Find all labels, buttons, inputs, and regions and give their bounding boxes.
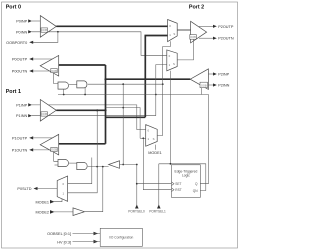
node x123.2 y107.6	[122, 107, 124, 109]
svg-text:P0INN: P0INN	[16, 30, 27, 34]
svg-text:Port 0: Port 0	[6, 4, 21, 10]
wire M1 output to U5	[177, 29, 190, 31]
buffer B2 MODE2	[73, 208, 85, 216]
svg-text:P1OUTN: P1OUTN	[12, 148, 28, 152]
mux M4 portsel	[146, 125, 158, 147]
wire QN to M2 select	[159, 164, 206, 191]
block I/O Configuration	[100, 228, 142, 246]
block Edge-Triggered Logic	[172, 165, 201, 198]
svg-text:P1OUTP: P1OUTP	[12, 136, 28, 140]
node M2 select on QN line	[170, 163, 172, 165]
wire G2 output y84.2	[88, 83, 163, 85]
mux M3 port select indicator	[57, 176, 67, 201]
wire M2 input 1 from H94.5 via x148.2	[156, 65, 167, 116]
pin P0OUTP	[12, 57, 53, 61]
mux M2 Port2 lower	[167, 50, 177, 71]
wire RST	[143, 138, 171, 189]
svg-text:P2OUTN: P2OUTN	[218, 37, 234, 41]
wire M2 select down	[169, 71, 171, 164]
wire G2 lower feed from y94.5	[84, 88, 86, 95]
pin P0INN	[16, 30, 32, 34]
wire M4 output up to mux M1 select	[157, 41, 170, 135]
op-amp U4 Port1 output driver	[40, 134, 59, 155]
pin OOBPORT0	[6, 41, 33, 45]
svg-text:I/O Configuration: I/O Configuration	[109, 236, 133, 240]
gate G3 AND	[55, 160, 69, 167]
wire U2 OOB output down to gate G1	[54, 73, 58, 84]
node PORTSEL0 y183.7	[136, 183, 138, 185]
svg-text:QN: QN	[193, 189, 198, 193]
svg-text:PORTSEL1: PORTSEL1	[149, 210, 166, 214]
wire M4 select stub	[154, 145, 156, 150]
svg-text:OOBPORT0: OOBPORT0	[6, 41, 27, 45]
wire U4 OOB output down to gate G3	[54, 152, 58, 162]
svg-text:P1INN: P1INN	[16, 114, 27, 118]
svg-text:S: S	[173, 32, 175, 36]
border frame	[2, 2, 238, 248]
thick vertical bus x105.5	[105, 65, 107, 144]
wire thick jog y117.3	[106, 116, 146, 118]
svg-text:P1INP: P1INP	[16, 103, 27, 107]
svg-text:Logic: Logic	[182, 174, 190, 178]
wire U6 OOB stub to H94	[200, 88, 202, 95]
op-amp U2 Port0 output driver	[40, 56, 59, 77]
pin PORTSEL0	[128, 205, 145, 214]
svg-text:P0INP: P0INP	[16, 20, 27, 24]
wire PORTSEL0 vertical	[136, 165, 138, 208]
node x123.2 y164.5	[122, 164, 124, 166]
node G4 out x97.5	[96, 166, 98, 168]
wire Q up to OOB line	[200, 95, 208, 184]
svg-text:OOB: OOB	[190, 35, 196, 39]
node thick x105.5 y110.3	[104, 109, 106, 111]
pin OOBSEL	[47, 232, 100, 237]
svg-text:OOB: OOB	[51, 69, 57, 73]
node thick x105.5 y79.2	[104, 78, 106, 80]
wire G1 lower feed from y94.5	[63, 89, 65, 94]
op-amp U3 Port1 receiver	[40, 100, 56, 122]
pin P0SLTD	[17, 187, 57, 191]
node y94.5 x63.7	[63, 94, 65, 96]
wire PORTSEL1 vertical	[158, 164, 160, 207]
wire M3 input 0	[68, 158, 92, 184]
pin PORTSEL1	[149, 205, 166, 214]
wire x123.2 down to buffer line	[122, 84, 124, 164]
pin P1INN	[16, 114, 32, 118]
wire branch to mux M4 input 1	[106, 108, 141, 139]
pin HV	[57, 240, 100, 245]
op-amp U1 Port0 receiver	[40, 16, 56, 38]
wire SET from PORTSEL0 node	[137, 183, 172, 185]
svg-text:MODE1: MODE1	[35, 200, 49, 204]
svg-text:S: S	[173, 62, 175, 66]
pin P0OUTN	[12, 69, 51, 73]
svg-text:SET: SET	[175, 182, 181, 186]
wire M4 input 1	[140, 137, 146, 139]
node G4 out x102.8	[102, 166, 104, 168]
wire U4 input thick from vertical	[59, 143, 106, 145]
wire thick Port2 RX broadcast y79.2	[106, 78, 191, 80]
wire B1 input from PORTSEL0	[120, 164, 137, 166]
wire U2 input thick from vertical	[59, 64, 106, 66]
gate G1 AND	[58, 82, 69, 89]
wire OOBPORT0 branch	[33, 32, 58, 43]
svg-text:P2INN: P2INN	[218, 84, 229, 88]
wire long horizontal y94.5	[58, 94, 201, 96]
svg-text:P2INP: P2INP	[218, 73, 229, 77]
wire U1 output thick to mux M1 input 0	[56, 25, 167, 27]
node M3 input 1 tap on P1 RX	[96, 109, 98, 111]
node on P0INN at x57.9	[57, 31, 59, 33]
pin P1OUTN	[12, 148, 51, 152]
pin P1OUTP	[12, 136, 53, 140]
svg-text:MODE2: MODE2	[35, 211, 49, 215]
wire U3 output thick	[56, 109, 105, 111]
svg-text:RST: RST	[175, 188, 181, 192]
wire M3 input 1	[68, 110, 98, 193]
pin P1INP	[16, 103, 32, 107]
svg-text:OOB: OOB	[51, 148, 57, 152]
svg-text:MODE1: MODE1	[148, 151, 162, 155]
svg-text:HV [0:3]: HV [0:3]	[57, 240, 71, 244]
node G2 out x123.2	[122, 83, 124, 85]
node H94 M2 tap	[155, 94, 157, 96]
wire P0INN passthrough to mux M2 input 0	[32, 32, 167, 56]
wire G4 output to buffer	[88, 166, 109, 168]
buffer B1	[109, 161, 120, 169]
node G2 out x162.7	[162, 83, 164, 85]
wire P1INN passthrough to vertical x155.4	[32, 115, 156, 117]
pin MODE2	[35, 210, 73, 214]
mux M1 Port2 upper	[168, 20, 178, 42]
svg-text:P0OUTN: P0OUTN	[12, 70, 28, 74]
wire thick vertical x144.5 to mux M1 input 1	[145, 36, 167, 118]
svg-text:OOB: OOB	[41, 28, 47, 32]
svg-text:Port 2: Port 2	[189, 4, 204, 10]
wire P1INP passthrough to mux M4 input 0	[32, 105, 137, 130]
op-amp U5 Port2 output driver	[190, 21, 207, 43]
gate G4 AND	[69, 163, 87, 170]
svg-text:P0OUTP: P0OUTP	[12, 58, 28, 62]
pin P0INP	[16, 19, 40, 23]
wire P2OUTP	[199, 25, 234, 29]
pin P2INP	[208, 72, 229, 76]
svg-text:OOB: OOB	[41, 112, 47, 116]
wire M2 output up to U5 lower	[177, 39, 193, 60]
svg-text:P2OUTP: P2OUTP	[218, 25, 234, 29]
node B1 input x136.8	[136, 164, 138, 166]
svg-text:OOB: OOB	[201, 83, 207, 87]
pin P2INN	[208, 83, 229, 87]
svg-text:Port 1: Port 1	[6, 89, 21, 95]
wire B2 output up	[85, 167, 103, 212]
wire M4 input 0 from P1INP	[137, 129, 146, 131]
svg-text:OOBSEL [0:1]: OOBSEL [0:1]	[47, 232, 71, 236]
node M4 input 1 RST tap	[142, 137, 144, 139]
svg-text:S: S	[153, 137, 155, 141]
svg-text:PORTSEL0: PORTSEL0	[128, 210, 145, 214]
gate G2 AND	[69, 81, 87, 88]
node y94.5 x85.1	[84, 94, 86, 96]
wire P2OUTN	[199, 37, 234, 41]
pin MODE1	[35, 199, 62, 204]
svg-text:P0SLTD: P0SLTD	[17, 187, 31, 191]
op-amp U6 Port2 receiver	[190, 69, 208, 90]
